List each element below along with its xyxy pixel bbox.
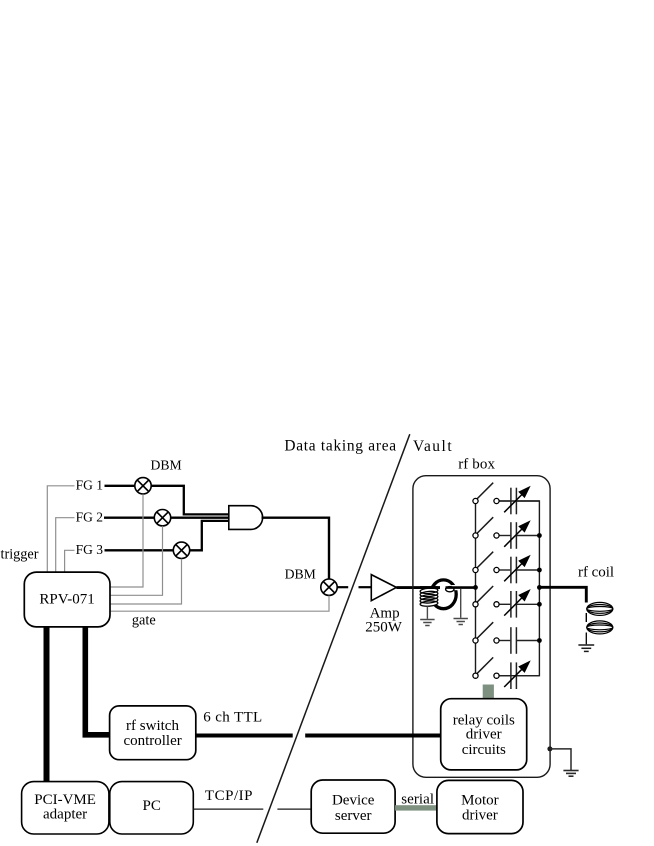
switch S1 fixed contact: [494, 498, 499, 503]
switch S1: wire to capacitor C1: [499, 500, 511, 502]
svg-text:FG 3: FG 3: [76, 542, 104, 557]
switch S2 fixed contact: [494, 533, 499, 538]
capacitor C2 to right rail: [517, 535, 539, 537]
switch S1 blade: [477, 483, 493, 499]
transformer secondary turn (curl): [446, 587, 454, 592]
capacitor C6 to right rail: [517, 675, 539, 677]
relay coils driver circuits box: [441, 699, 527, 770]
svg-text:driver: driver: [466, 727, 502, 743]
LO wire: RPV-071 to M2: [110, 526, 163, 595]
switch S3 blade: [477, 552, 493, 568]
RPV-071 box: [24, 572, 110, 627]
wire: 6 ch TTL vault wall to relay driver: [305, 734, 441, 738]
svg-text:circuits: circuits: [462, 742, 506, 758]
left rail (input node): [475, 501, 477, 676]
ground (rf coil): [578, 645, 594, 651]
capacitor C2 plates: [510, 522, 512, 549]
rf coil link wire: [585, 613, 587, 622]
svg-text:TCP/IP: TCP/IP: [205, 788, 253, 804]
amplifier Amp 250W: [371, 575, 396, 601]
capacitor C4 plates: [510, 591, 512, 618]
wire: RPV-071 to rf switch controller: [85, 627, 109, 735]
switch S5: wire to capacitor C5: [499, 640, 511, 642]
connector: switch bank to relay driver (ribbon): [483, 685, 494, 700]
rf coil ground stub: [585, 633, 587, 645]
mixer M3 (DBM): [173, 542, 189, 558]
svg-text:adapter: adapter: [43, 807, 87, 823]
capacitor C5 to right rail: [517, 640, 539, 642]
ground (rf box): [563, 771, 578, 777]
rf coil L1 (upper winding): [587, 602, 613, 615]
switch S4 fixed contact: [494, 602, 499, 607]
gate wire: RPV-071 to M4 LO: [110, 596, 329, 612]
wire: 6 ch TTL controller to vault wall: [195, 734, 292, 738]
switch S2: wire to capacitor C2: [499, 535, 511, 537]
switch S6 blade: [477, 657, 493, 673]
wire: trigger line RPV-071 to FG 3: [65, 550, 75, 573]
switch S6 pivot contact: [473, 673, 478, 678]
wire: trigger line RPV-071 to FG 1: [47, 486, 74, 573]
Device server box: [311, 780, 395, 833]
switch S3 fixed contact: [494, 567, 499, 572]
junction dot: left rail / main line: [473, 585, 478, 590]
capacitor C6 plates: [510, 662, 512, 689]
switch S5 fixed contact: [494, 638, 499, 643]
wire: TCP/IP PC to vault wall: [193, 808, 263, 810]
mixer M4 (DBM): [321, 579, 337, 595]
svg-text:RPV-071: RPV-071: [39, 591, 94, 607]
svg-text:Motor: Motor: [461, 792, 499, 808]
switch S4 pivot contact: [473, 602, 478, 607]
wire: RPV-071 to PCI-VME adapter: [44, 627, 50, 782]
mixer M2 (DBM): [154, 510, 170, 526]
svg-text:Vault: Vault: [413, 438, 452, 455]
capacitor C3 plates: [510, 557, 512, 584]
switch S3 pivot contact: [473, 567, 478, 572]
svg-text:controller: controller: [123, 733, 181, 749]
rf switch controller box: [110, 706, 196, 760]
transformer left ground stub: [426, 606, 428, 619]
transformer primary solenoid winding (fills): [420, 588, 438, 607]
svg-text:rf switch: rf switch: [126, 718, 179, 734]
svg-text:250W: 250W: [365, 619, 403, 635]
wire: M3 to AND gate input C: [190, 521, 229, 550]
capacitor C3 to right rail: [517, 569, 539, 571]
svg-text:rf box: rf box: [458, 456, 495, 472]
switch S5 blade: [477, 622, 493, 638]
capacitor C4 to right rail: [517, 603, 539, 605]
wire: vault wall to amplifier input: [359, 586, 372, 588]
ground (transformer right): [454, 619, 468, 625]
matching transformer T1: core ring: [431, 580, 456, 609]
junction dot: right rail / output: [537, 585, 542, 590]
wire: amplifier output to matching transformer: [396, 586, 440, 589]
svg-text:serial: serial: [401, 792, 434, 808]
switch S2 pivot contact: [473, 533, 478, 538]
wire: right rail to rf coil: [539, 587, 586, 602]
svg-text:PC: PC: [143, 798, 161, 814]
transformer right ground stub: [460, 589, 462, 618]
switch S5 pivot contact: [473, 638, 478, 643]
wire: M2 to AND gate input B: [171, 517, 229, 519]
capacitor C1 plates: [510, 488, 512, 515]
right rail (output node): [497, 501, 540, 676]
rf box enclosure: [413, 476, 550, 778]
rf coil L2 (lower winding): [587, 621, 613, 634]
junction dot: rf box ground tap: [547, 746, 552, 751]
mixer M1 (DBM): [135, 478, 151, 494]
capacitor C1 to right rail: [517, 500, 539, 502]
switch S6 fixed contact: [494, 673, 499, 678]
svg-text:6 ch TTL: 6 ch TTL: [203, 710, 262, 726]
AND gate U1: [229, 506, 263, 530]
variable capacitor C6 arrow: [504, 669, 522, 687]
variable capacitor C1 arrow: [504, 495, 522, 513]
switch S3: wire to capacitor C3: [499, 569, 511, 571]
svg-text:trigger: trigger: [1, 546, 39, 562]
variable capacitor C2 arrow: [504, 529, 522, 547]
variable capacitor C3 arrow: [504, 564, 522, 582]
svg-text:driver: driver: [462, 808, 498, 824]
switch S2 blade: [477, 517, 493, 533]
svg-text:DBM: DBM: [285, 567, 316, 582]
variable capacitor C4 arrow: [504, 598, 522, 616]
transformer primary solenoid winding (outlines): [420, 588, 438, 607]
switch S4: wire to capacitor C4: [499, 603, 511, 605]
wire: FG 3 to mixer M3: [105, 549, 174, 551]
PCI-VME adapter box: [22, 782, 109, 834]
white casing where output wire crosses core ring: [452, 585, 463, 590]
capacitor C5 plates: [510, 627, 512, 654]
svg-text:FG 2: FG 2: [76, 510, 103, 525]
ground (transformer left): [420, 620, 434, 626]
svg-text:Device: Device: [332, 793, 375, 809]
wire: rf box to ground: [550, 749, 571, 770]
wire: trigger line RPV-071 to FG 2: [56, 518, 75, 573]
LO wire: RPV-071 to M1: [110, 494, 143, 587]
svg-text:FG 1: FG 1: [76, 478, 103, 493]
junction dots: right rail rows: [537, 533, 542, 538]
wire: transformer to left rail: [446, 586, 476, 589]
wire: AND gate output to mixer M4: [262, 518, 330, 579]
wire: amplifier line over winding: [420, 586, 438, 589]
switch S1 pivot contact: [473, 498, 478, 503]
svg-text:DBM: DBM: [151, 458, 182, 473]
wire: FG 1 to mixer M1: [105, 485, 136, 487]
serial connector (ribbon): [395, 805, 437, 810]
wire: FG 2 to mixer M2: [104, 517, 155, 519]
wire: M4 output to vault wall: [337, 586, 348, 588]
PC box: [110, 782, 194, 834]
LO wire: RPV-071 to M3: [110, 559, 182, 604]
wire: TCP/IP vault wall to device server: [277, 808, 312, 810]
wire: M1 to AND gate input A: [151, 486, 229, 515]
Motor driver box: [437, 780, 523, 833]
vault wall (diagonal): [257, 434, 410, 843]
switch S6: wire to capacitor C6: [499, 675, 511, 677]
svg-text:server: server: [335, 808, 372, 824]
svg-text:rf coil: rf coil: [578, 564, 614, 580]
switch S4 blade: [477, 586, 493, 602]
svg-text:Data taking area: Data taking area: [284, 438, 396, 455]
svg-text:gate: gate: [132, 613, 156, 629]
